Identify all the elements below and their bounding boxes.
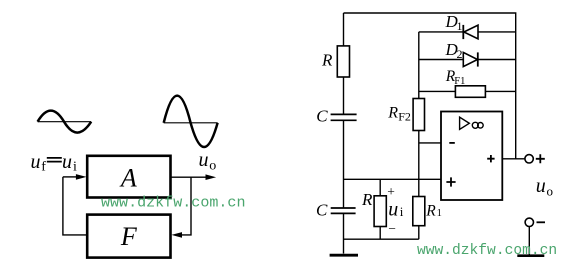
svg-text:2: 2 (457, 47, 463, 61)
svg-text:u: u (536, 175, 546, 197)
svg-text:C: C (316, 107, 328, 126)
svg-text:R: R (321, 51, 333, 70)
svg-text:u: u (199, 149, 209, 171)
svg-text:R: R (361, 190, 373, 209)
svg-text:f: f (41, 160, 46, 175)
svg-text:u: u (388, 199, 398, 221)
svg-text:i: i (400, 204, 404, 219)
svg-text:i: i (73, 159, 77, 174)
svg-text:A: A (119, 163, 137, 192)
svg-text:−: − (388, 221, 396, 236)
svg-text:R: R (387, 105, 398, 122)
svg-text:1: 1 (437, 208, 442, 219)
svg-text:o: o (209, 159, 216, 174)
svg-text:u: u (62, 151, 72, 173)
svg-text:C: C (316, 201, 328, 220)
svg-text:www.dzkfw.com.cn: www.dzkfw.com.cn (101, 194, 245, 212)
svg-text:F1: F1 (454, 76, 465, 87)
svg-text:F2: F2 (398, 110, 411, 124)
svg-text:+: + (387, 184, 395, 199)
svg-text:u: u (31, 151, 41, 173)
svg-text:o: o (547, 184, 554, 199)
svg-text:www.dzkfw.com.cn: www.dzkfw.com.cn (417, 243, 557, 259)
svg-text:F: F (120, 222, 138, 251)
svg-text:1: 1 (457, 19, 463, 33)
svg-text:R: R (425, 203, 436, 220)
